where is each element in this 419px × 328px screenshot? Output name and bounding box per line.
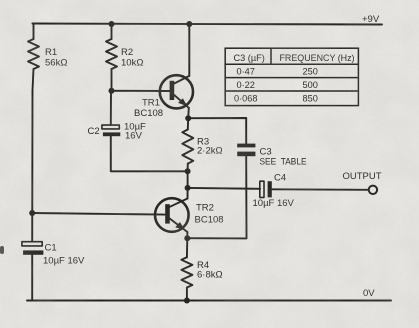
node: TR2 collector / output [185, 185, 191, 191]
wire: TR2 base wire from C1 node [32, 213, 165, 215]
resistor R1 [28, 39, 39, 69]
wire: +9V top rail [33, 24, 383, 25]
resistor R2 [106, 39, 117, 69]
wire: R3 top lead [187, 118, 189, 129]
output terminal circle [369, 186, 377, 194]
node: top rail / R2 [109, 21, 115, 27]
scan smudge left edge [0, 246, 4, 254]
wire: top rail down to TR1 collector [188, 24, 190, 76]
wire: output line from TR2 collector node to C4 [188, 187, 260, 190]
wire: TR1 emitter down to node [187, 108, 190, 118]
wire: C3 bottom down and left to TR2 emitter node [187, 156, 246, 238]
transistor TR1 [160, 75, 193, 108]
wire: R4 top lead [186, 238, 188, 257]
wire: node to C3 top horizontal [188, 118, 246, 144]
wire: R4 bottom to 0V rail [186, 288, 188, 301]
wire: TR1 base node down to C2 [110, 91, 112, 125]
wire: 0V bottom rail [27, 300, 391, 302]
wire: R2 bottom to TR1 base node [111, 69, 113, 91]
wire: C1 bottom to 0V rail [31, 255, 33, 301]
node: R3 bottom / C2 return [185, 168, 191, 174]
node: TR2 emitter / C3 return / R4 [184, 235, 190, 241]
node: TR1 emitter / R3 / C3 [185, 115, 191, 121]
transistor TR2 [155, 198, 189, 232]
capacitor C2 [102, 125, 120, 136]
node: R4 / 0V rail [184, 298, 190, 304]
node: R2 / TR1 base / C2 [109, 88, 115, 94]
node: TR2 base / C1 [29, 210, 35, 216]
resistor R3 [182, 130, 193, 164]
wire: R3 bottom to output node and TR2 collector [187, 164, 189, 199]
wire: R1 bottom down to C1 [32, 69, 33, 242]
resistor R4 [181, 257, 192, 287]
wire: C2 bottom L-shape to R3 bottom node [111, 136, 188, 171]
wire: C4 to output terminal [272, 188, 369, 191]
capacitor C1 [22, 242, 44, 255]
table: C3 value vs frequency [225, 48, 358, 105]
value/reference labels [43, 14, 382, 299]
capacitor C3 [237, 144, 255, 157]
wire: left branch top corner to R1 [33, 24, 34, 40]
wire: R2 branch from top rail [111, 24, 113, 39]
wire: TR2 emitter down to node [186, 232, 188, 238]
wire: TR1 base wire [112, 90, 170, 92]
capacitor C4 [260, 181, 272, 197]
node: top rail / TR1 collector line [186, 21, 192, 27]
scan noise overlay [0, 0, 1, 1]
